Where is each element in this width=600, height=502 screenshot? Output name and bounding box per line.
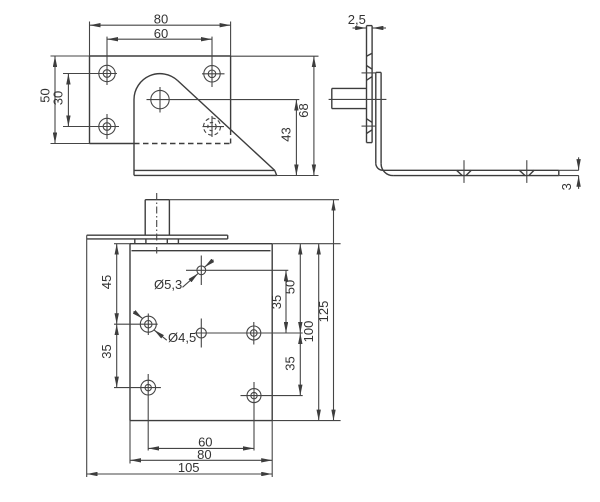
view C: dimension 100 [318, 244, 320, 421]
svg-text:100: 100 [301, 321, 316, 343]
view B: countersink hole 1 in leg [457, 170, 472, 175]
view A: hole H2 top-right [202, 37, 225, 87]
view B: dimension 2,5 [353, 27, 387, 29]
view C: bottom-right hole [241, 382, 303, 451]
view B: countersink hole 2 in leg [519, 170, 534, 175]
view B: centerline hole1 [362, 72, 377, 74]
view B: centerline leg hole2 [526, 160, 528, 183]
svg-text:50: 50 [282, 280, 297, 294]
view C: middle-right hole [247, 322, 261, 345]
view C: tab [145, 200, 169, 236]
view A: dimension 43 [295, 100, 297, 176]
view A: dimension 68 [231, 56, 319, 175]
view B: countersink hole 1 in L1 [367, 66, 373, 81]
view B: break tick [367, 53, 373, 56]
svg-text:2,5: 2,5 [348, 12, 366, 27]
view C: dimension 35 upper right [285, 270, 287, 333]
view C: leader lines diameter 5,3 [183, 260, 214, 288]
view C: dimension 50 [299, 244, 301, 333]
svg-text:30: 30 [50, 91, 65, 105]
view C: bottom-left hole [114, 374, 161, 451]
svg-text:35: 35 [282, 356, 297, 370]
view C: dimension 105 [87, 473, 273, 475]
view C: middle-left hole [114, 314, 158, 336]
view B: countersink hole 2 in L1 [367, 119, 373, 134]
view C: extension lines right side [169, 200, 340, 421]
view B: angle section L2 [376, 72, 559, 175]
svg-text:125: 125 [316, 301, 331, 323]
view A: side view plate outline [90, 56, 231, 144]
view C: feet ticks [135, 239, 179, 244]
view A: hole H3 bottom-left [63, 114, 119, 139]
view C: dimension 60 [148, 447, 254, 449]
view C: dimension 125 [333, 200, 335, 421]
svg-text:Ø4,5: Ø4,5 [168, 330, 196, 345]
view A: gusset outline [134, 74, 277, 176]
view B: boss [332, 88, 367, 108]
view A: dimension 60 [107, 38, 212, 40]
view C: extensions below plate [130, 421, 272, 477]
view A: dimension 80 [90, 22, 231, 57]
svg-text:60: 60 [154, 26, 168, 41]
view C: leader lines diameter 4,5 [134, 311, 167, 340]
view C: bar left edge extension [86, 235, 88, 477]
view C: centerline of tab [156, 193, 158, 254]
view C: center hole [196, 319, 206, 348]
view C: dimension 80 [130, 459, 272, 461]
view A: dimension 50 [51, 56, 90, 144]
svg-text:35: 35 [269, 295, 284, 309]
view C: plate outline [130, 244, 272, 421]
svg-text:35: 35 [99, 344, 114, 358]
view B: centerline big hole [329, 98, 387, 100]
view B: flat plate section L1 [367, 26, 373, 143]
view C: dimension 35 lower right [299, 333, 301, 396]
view A: hole H4 hidden bottom-right [203, 116, 225, 137]
svg-text:3: 3 [559, 183, 574, 190]
view A: dimension 30 [67, 74, 69, 127]
view C: top hole [186, 256, 288, 286]
view C: dimension 45 left [114, 244, 130, 325]
view A: hidden bottom edge [134, 143, 231, 145]
svg-text:68: 68 [296, 103, 311, 117]
view C: middle row centerline [195, 332, 303, 334]
view C: dimension 35 left [116, 324, 118, 387]
svg-text:105: 105 [178, 460, 200, 475]
view C: inner edge line [132, 250, 271, 252]
svg-text:43: 43 [279, 127, 294, 141]
svg-text:80: 80 [154, 12, 168, 27]
view A: big hole in gusset [147, 87, 300, 113]
svg-text:Ø5,3: Ø5,3 [154, 277, 182, 292]
view B: dimension 3 [559, 157, 579, 189]
view B: centerline hole2 [362, 125, 377, 127]
view A: hole H1 top-left [63, 37, 117, 85]
view A: hidden right edge [230, 130, 232, 144]
view B: centerline leg hole1 [463, 160, 465, 183]
svg-text:45: 45 [99, 275, 114, 289]
view C: flange bar [87, 235, 228, 239]
